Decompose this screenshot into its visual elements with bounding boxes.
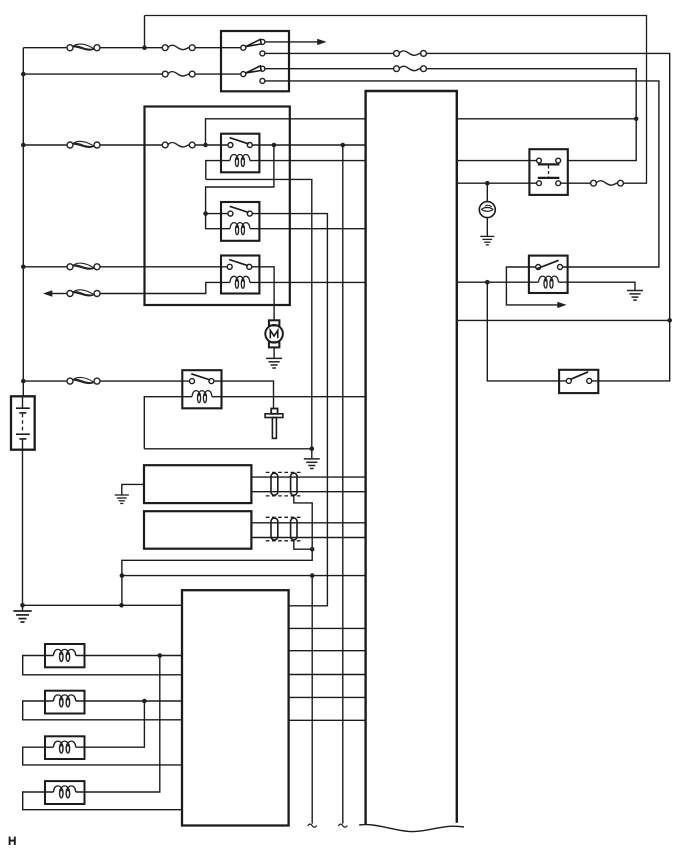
fusible link FL5 bbox=[67, 377, 100, 384]
wire: SP4 plus lead up to SP1 line bbox=[76, 656, 160, 793]
battery plate long 2 bbox=[16, 433, 30, 435]
SW1 pole2 common contact bbox=[241, 72, 246, 77]
battery plate long 1 bbox=[16, 407, 30, 409]
wire: SP4 minus lead loop to amp bbox=[23, 792, 182, 810]
ground G2 (battery) bbox=[13, 611, 31, 622]
NF2 capsule right bbox=[291, 518, 297, 540]
wire: F4 right to far-right bus then down to node N13 bbox=[426, 53, 669, 320]
noise filter NF1 dashed frame bbox=[266, 472, 302, 496]
speaker SP4 box bbox=[45, 781, 85, 804]
wire: R4 coil left lead down to ground rail bbox=[144, 397, 192, 449]
node dot row4 on bus bbox=[21, 265, 26, 270]
SP4 coil bbox=[53, 786, 75, 798]
node dot battery ground bbox=[20, 603, 25, 608]
fuse F4 bbox=[394, 51, 427, 57]
wire: box B out 2 through NF2 to ECU pin bbox=[251, 537, 365, 539]
node dot SP2/SP3 join bbox=[142, 699, 147, 704]
SW1 pole2 blade wedge bbox=[245, 66, 261, 73]
wire: row5 bus to fusible link FL5 bbox=[23, 380, 67, 382]
wire: NF1 shield drain down to bus-312b and ground rail bbox=[122, 495, 312, 605]
R4 right contact bbox=[209, 379, 214, 384]
ECU U1 box (broken bottom) bbox=[366, 91, 457, 825]
R3 coil bbox=[230, 276, 250, 288]
relay R5 box bbox=[529, 256, 568, 293]
wire: battery negative down to ground rail bbox=[22, 450, 24, 606]
motor M1 body bbox=[265, 325, 283, 343]
wire: ECU right pin to node D13 bbox=[457, 319, 670, 321]
node dot bus-312 lower branch bbox=[310, 573, 315, 578]
wire: F5 right, down at x=636 to latching relay R6 top right bbox=[426, 69, 636, 161]
wire: R2 output right then down bus-327 to big box pin bbox=[252, 214, 327, 606]
radio unit box B bbox=[144, 511, 251, 549]
wire: R6 bottom-right to fuse F6 bbox=[561, 182, 591, 184]
R2 blade bbox=[230, 206, 249, 212]
wire: F1 to switch SW1 common 1 bbox=[195, 47, 241, 49]
R4 blade bbox=[191, 374, 210, 380]
R3 right contact bbox=[247, 264, 252, 269]
SP2 coil bbox=[53, 695, 75, 707]
wire: SW1 pole2 lower out, down at x=659 to relay R5 contact bbox=[265, 81, 659, 267]
node dot D10 bbox=[634, 117, 639, 122]
wire: R4 coil right to ECU pin bbox=[212, 396, 366, 398]
wire: amp to ECU pin 2 bbox=[289, 650, 366, 652]
wire: R3 output down to motor M1 bbox=[252, 267, 274, 321]
squiggle end bus-343 bbox=[338, 824, 347, 827]
battery B1 case bbox=[11, 396, 35, 449]
wire: R5 coil branch down to switch SW2 bbox=[487, 282, 566, 381]
lamp L1 bulb bbox=[479, 202, 495, 218]
switch SW1 box (main switch, 2 poles) bbox=[221, 31, 289, 91]
R6 movable bar top bbox=[538, 163, 560, 165]
wire: shield line to ECU pin bbox=[122, 575, 366, 577]
node dot lamp branch bbox=[485, 181, 490, 186]
wire: box B out 1 through NF2 to ECU pin bbox=[251, 522, 365, 524]
wire: amp to ECU pin 5 bbox=[289, 719, 366, 721]
motor M1 bottom brush bbox=[269, 342, 280, 347]
SW2 left contact bbox=[566, 378, 571, 383]
wire: NF2 shield drain to bus-312b bbox=[294, 540, 312, 549]
R1 blade bbox=[230, 138, 249, 144]
ground G6 (R5 coil) bbox=[627, 291, 643, 301]
R4 left contact bbox=[190, 379, 195, 384]
fuse F6 bbox=[591, 180, 624, 186]
nozzle (washer) stem bbox=[271, 409, 277, 414]
SW1 pole1 common contact bbox=[241, 45, 246, 50]
ground G1 (motor) bbox=[266, 358, 282, 368]
wire: R1 output to ECU pin bbox=[252, 144, 365, 146]
node dot row2 on bus bbox=[21, 72, 26, 77]
R6 bottom-left contact bbox=[537, 181, 542, 186]
speaker SP1 box bbox=[45, 644, 85, 667]
wire: amp to ECU pin 1 bbox=[289, 627, 366, 629]
wire: row3 bus to fusible link FL2 bbox=[23, 144, 67, 146]
fuse F1 bbox=[162, 45, 195, 51]
wire: SP2 minus lead loop to amp bbox=[23, 701, 182, 720]
wire: bus-312 lower segment down off-page bbox=[311, 576, 313, 824]
SP3 coil bbox=[53, 741, 75, 753]
radio unit box A bbox=[144, 465, 251, 503]
R3 left contact bbox=[227, 264, 232, 269]
battery plate short 2 bbox=[19, 438, 26, 440]
motor M1 letter bbox=[270, 330, 278, 338]
wire: row4 bus to fusible link FL3 bbox=[23, 266, 67, 268]
wire: FL3 to relay R3 input bbox=[100, 266, 227, 268]
junction block JB bbox=[145, 107, 290, 306]
R2 right contact bbox=[247, 211, 252, 216]
node dot drain crosses signal line bbox=[120, 573, 125, 578]
SW2 blade bbox=[571, 372, 589, 380]
wire: bottom ground rail to amplifier box bbox=[23, 604, 183, 606]
wire: ECU right pin to R6 bottom-left bbox=[457, 182, 537, 184]
wire: SW1 pole2 upper out to fuse F5 bbox=[265, 68, 394, 70]
wire: FL4 to left arrow bbox=[52, 293, 67, 295]
R1 right contact bbox=[247, 143, 252, 148]
arrow right (R5 continues) bbox=[557, 302, 566, 308]
wire: ECU right pin to latching relay R6 top-left bbox=[457, 160, 537, 162]
wire: SP1 minus lead loop to amp bbox=[23, 656, 182, 675]
node dot row3 on bus bbox=[21, 143, 26, 148]
relay R1 box bbox=[221, 134, 259, 173]
ECU bottom break wave bbox=[359, 825, 464, 832]
R6 top-right contact bbox=[556, 158, 561, 163]
wire: R1 output branch down-left-down to relay R2 input bbox=[206, 145, 274, 229]
SW1 pole1 blade wedge bbox=[245, 39, 261, 46]
label H bbox=[10, 837, 15, 846]
wire: lamp to ground bbox=[486, 218, 488, 237]
wire: R1 coil left lead bbox=[206, 161, 230, 180]
fusible link FL4 bbox=[67, 290, 100, 297]
node dot at R1 input branch bbox=[203, 143, 208, 148]
R6 bottom-right contact bbox=[556, 181, 561, 186]
R5 blade bbox=[536, 260, 558, 269]
R4 coil bbox=[192, 391, 212, 403]
wire: SW1 pole1 lower out to fuse F4 bbox=[265, 52, 394, 54]
SW1 pole2 lower contact bbox=[260, 78, 265, 83]
speaker SP3 box bbox=[45, 736, 85, 759]
relay R4 box bbox=[182, 370, 221, 408]
wire: drop from top line to node A bbox=[144, 16, 146, 48]
squiggle end bus-312 bbox=[308, 824, 317, 827]
wire: R2 coil right to ECU pin bbox=[250, 228, 366, 230]
battery internal bottom lead bbox=[22, 439, 24, 450]
wire: lamp feed bbox=[486, 183, 488, 202]
node dot bus-343 branch bbox=[341, 143, 346, 148]
wire: R4 output right then down to nozzle bbox=[214, 381, 274, 408]
wire: bus-343 from R1 line down off-page bbox=[342, 145, 344, 824]
wire: D13 down then left to SW2 right contact bbox=[592, 320, 670, 381]
SP1 coil bbox=[53, 649, 75, 661]
battery dashed middle bbox=[22, 414, 24, 434]
wire: R3 coil right to ECU pin bbox=[250, 281, 366, 283]
arrow right (continues) bbox=[317, 39, 326, 45]
node dot ground rail / filter drain bbox=[119, 603, 124, 608]
R1 coil bbox=[230, 155, 250, 167]
fuse F5 bbox=[394, 66, 427, 72]
fusible link FL2 bbox=[67, 141, 100, 148]
wire: R2 input stub bbox=[206, 213, 228, 215]
node dot NF drains join bbox=[310, 547, 315, 552]
speaker SP2 box bbox=[45, 691, 85, 714]
wire: R5 coil right to ground bbox=[559, 282, 636, 290]
R6 top-left contact bbox=[537, 158, 542, 163]
wire: box A out 1 through NF1 to ECU pin bbox=[251, 476, 365, 478]
wire: amp to ECU pin 4 bbox=[289, 696, 366, 698]
R2 coil bbox=[230, 223, 250, 235]
node dot R1 output branch bbox=[272, 143, 277, 148]
switch SW2 box bbox=[559, 370, 598, 393]
wire: row2 bus to fuse F2 bbox=[23, 73, 162, 75]
wire: ground rail to bus-312 ground node bbox=[144, 448, 311, 450]
fuse F3 (inside JB) bbox=[162, 142, 195, 148]
NF1 capsule right bbox=[291, 473, 297, 495]
R2 left contact bbox=[228, 211, 233, 216]
wire: SP3 plus lead up to SP2 line bbox=[76, 701, 145, 747]
arrow left (continues) bbox=[43, 290, 52, 296]
R1 left contact bbox=[228, 143, 233, 148]
wire: left battery bus vertical bbox=[22, 48, 24, 397]
wire: SW1 pole1 upper out to arrow bbox=[265, 41, 318, 43]
fusible link FL1 bbox=[67, 44, 100, 51]
SW2 right contact bbox=[587, 378, 592, 383]
lamp L1 filament bbox=[482, 208, 493, 212]
lamp L1 filament curl bbox=[485, 205, 491, 207]
wire: FL5 to relay R4 input bbox=[100, 380, 190, 382]
wire: F3 to relay R1 input contact bbox=[195, 144, 228, 146]
R5 right contact bbox=[558, 265, 563, 270]
wire: R1 coil right to ECU pin bbox=[250, 160, 366, 162]
node dot D13 bbox=[667, 318, 672, 323]
fuse F2 bbox=[162, 71, 195, 77]
nozzle flange bbox=[265, 414, 283, 418]
R5 left contact bbox=[536, 265, 541, 270]
SW1 pole1 lower contact bbox=[260, 51, 265, 56]
ground G4 (bus-312) bbox=[304, 459, 320, 469]
wire: SP2 plus lead to amp bbox=[76, 700, 182, 702]
node dot R5 coil branch bbox=[485, 280, 490, 285]
R3 blade bbox=[229, 260, 248, 266]
wire: box A out 2 through NF1 to ECU pin bbox=[251, 491, 365, 493]
wire: R1 coil return line right and down bus-312 to ground node bbox=[206, 179, 312, 459]
wire: ECU right pin to node D10 bbox=[457, 118, 636, 120]
wire: FL2 to fuse F3 bbox=[100, 144, 162, 146]
wire: F2 to switch SW1 common 2 bbox=[195, 73, 241, 75]
wire: motor to ground bbox=[273, 347, 275, 358]
node dot R2 input bbox=[203, 211, 208, 216]
motor M1 top brush bbox=[269, 320, 280, 325]
wire: branch up from R1 input and right to ECU pin bbox=[206, 119, 366, 145]
amplifier box (bottom) bbox=[182, 590, 289, 825]
battery plate short 1 bbox=[19, 412, 26, 414]
wire: main feed top line from node A to right bus bbox=[145, 16, 647, 184]
SW1 pole1 upper contact bbox=[260, 39, 265, 44]
node dot SP1/SP4 join bbox=[158, 653, 163, 658]
wire: box A case ground bbox=[122, 484, 144, 495]
wire: SP3 minus lead loop to amp bbox=[23, 747, 182, 765]
battery internal top lead bbox=[22, 396, 24, 408]
wire: FL1 to fuse F1 bbox=[100, 47, 162, 49]
relay R2 box bbox=[221, 202, 259, 241]
noise filter NF2 dashed frame bbox=[266, 517, 302, 541]
wire: row1 battery to fusible link FL1 bbox=[23, 47, 67, 49]
ground G3 (box A) bbox=[115, 495, 129, 503]
R5 coil bbox=[539, 276, 559, 288]
latching relay R6 box bbox=[529, 149, 567, 195]
wire: R3 coil left lead down and out left bbox=[100, 282, 230, 293]
R6 movable bar bottom bbox=[538, 177, 560, 179]
NF2 capsule left bbox=[271, 518, 278, 540]
wire: SP1 plus lead to amp bbox=[76, 655, 182, 657]
relay R3 box bbox=[221, 256, 259, 294]
wire: battery ground stub bbox=[22, 605, 24, 611]
ground G5 (lamp) bbox=[480, 236, 494, 244]
R6 link dashed bbox=[548, 166, 550, 177]
wire: amp to ECU pin 3 bbox=[289, 674, 366, 676]
node dot row5 on bus bbox=[21, 379, 26, 384]
NF1 capsule left bbox=[271, 473, 278, 495]
wire: ECU right pin through relay R5 coil feed bbox=[457, 281, 539, 283]
nozzle needle bbox=[272, 418, 276, 439]
wire: R5 left contact loop to arrow bbox=[506, 267, 557, 305]
node A junction dot bbox=[142, 45, 147, 50]
fusible link FL3 bbox=[67, 263, 100, 270]
node dot bus-312 ground bbox=[310, 447, 315, 452]
SW1 pole2 upper contact bbox=[260, 66, 265, 71]
